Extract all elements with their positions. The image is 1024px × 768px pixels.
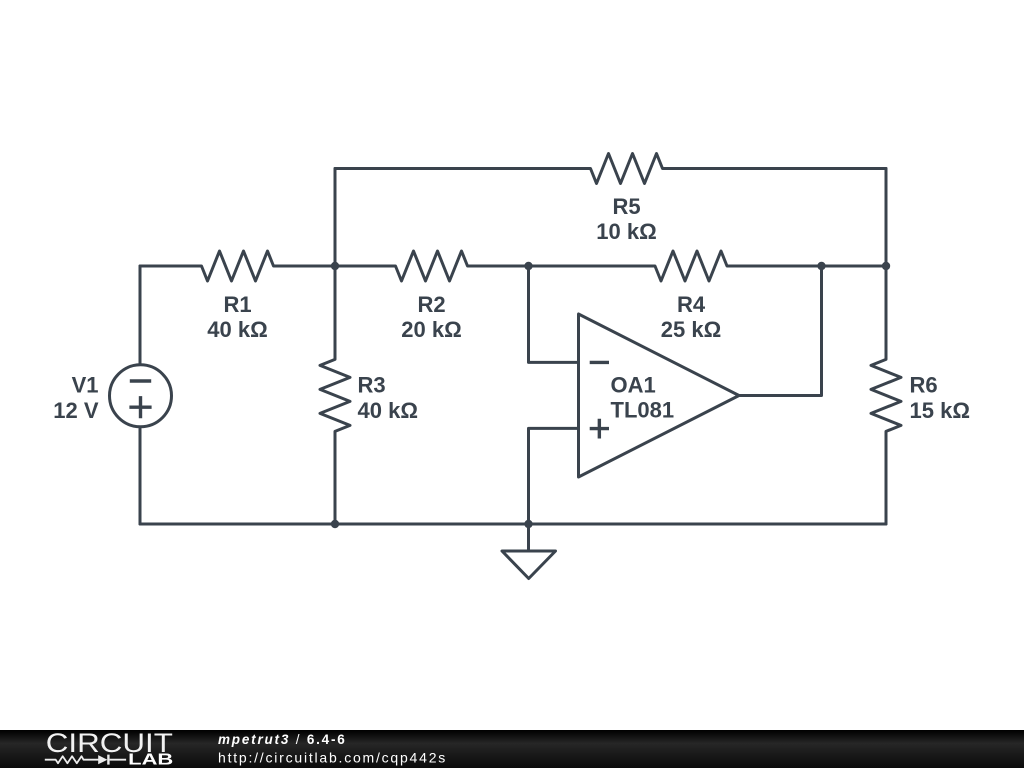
CircuitLab logo resistor-diode glyph bbox=[45, 755, 126, 765]
svg-text:40 kΩ: 40 kΩ bbox=[207, 317, 267, 342]
svg-text:http://circuitlab.com/cqp442s: http://circuitlab.com/cqp442s bbox=[218, 749, 447, 765]
svg-text:mpetrut3 / 6.4-6: mpetrut3 / 6.4-6 bbox=[218, 732, 347, 747]
wire left rail bottom bbox=[139, 428, 142, 524]
voltage source V1 bbox=[110, 365, 172, 427]
V1 minus sign bbox=[130, 379, 151, 382]
resistor R1 bbox=[140, 251, 335, 281]
node junction at R6 top bbox=[882, 262, 890, 270]
CircuitLab logo diode triangle bbox=[98, 755, 107, 764]
svg-text:OA1: OA1 bbox=[611, 373, 656, 398]
op-amp U1 triangle bbox=[579, 314, 740, 477]
node junction at R3 bottom bbox=[331, 520, 339, 528]
node junction at op-amp output feedback bbox=[817, 262, 825, 270]
wire op-amp output bbox=[739, 266, 822, 396]
node junction at R2/R4/op-amp input bbox=[524, 262, 532, 270]
op-amp plus symbol bbox=[590, 419, 609, 439]
ground symbol bbox=[502, 551, 556, 579]
resistor R4 bbox=[529, 251, 887, 281]
svg-text:20 kΩ: 20 kΩ bbox=[401, 317, 461, 342]
resistor R6 bbox=[871, 266, 901, 524]
resistor R2 bbox=[335, 251, 529, 281]
svg-text:R2: R2 bbox=[417, 292, 445, 317]
svg-text:R1: R1 bbox=[223, 292, 251, 317]
wire op-amp inverting input bbox=[529, 266, 579, 362]
svg-text:TL081: TL081 bbox=[611, 398, 675, 423]
wire op-amp non-inverting input bbox=[529, 428, 579, 524]
svg-text:40 kΩ: 40 kΩ bbox=[358, 398, 418, 423]
svg-text:10 kΩ: 10 kΩ bbox=[596, 219, 656, 244]
op-amp minus symbol bbox=[590, 361, 609, 364]
svg-text:LAB: LAB bbox=[128, 751, 173, 768]
node junction at R1/R2/R3 bbox=[331, 262, 339, 270]
resistor R3 bbox=[320, 266, 350, 524]
ground stem bbox=[527, 524, 530, 551]
svg-text:R6: R6 bbox=[910, 373, 938, 398]
wire top rail left riser bbox=[334, 169, 337, 267]
svg-text:15 kΩ: 15 kΩ bbox=[910, 398, 970, 423]
svg-text:R5: R5 bbox=[612, 194, 640, 219]
svg-text:12 V: 12 V bbox=[53, 398, 99, 423]
wire bottom rail bbox=[140, 523, 886, 526]
svg-text:R4: R4 bbox=[677, 292, 706, 317]
resistor R5 bbox=[335, 154, 886, 184]
wire left rail top bbox=[139, 266, 142, 363]
svg-text:R3: R3 bbox=[358, 373, 386, 398]
svg-text:25 kΩ: 25 kΩ bbox=[661, 317, 721, 342]
node junction at ground bbox=[524, 520, 532, 528]
svg-text:V1: V1 bbox=[72, 373, 99, 398]
wire top rail right riser bbox=[885, 169, 888, 267]
V1 plus sign bbox=[129, 396, 151, 418]
